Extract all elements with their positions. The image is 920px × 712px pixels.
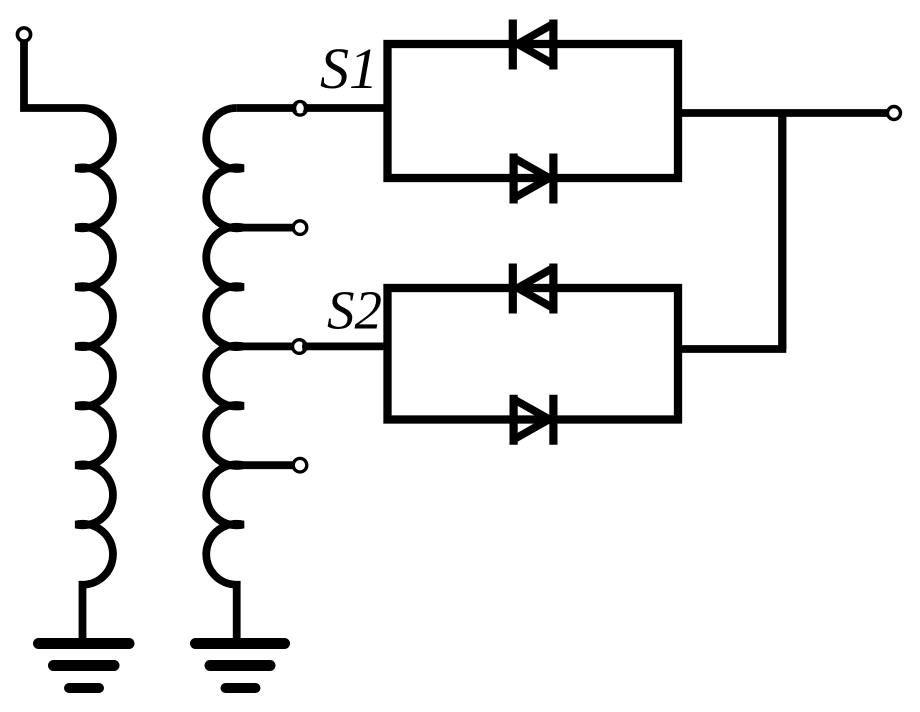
- svg-text:S1: S1: [320, 36, 378, 101]
- diode D2 cathode bar: [549, 154, 557, 204]
- box S2: [388, 288, 679, 420]
- junction white pill tap S1: [296, 103, 304, 113]
- diode D1 triangle: [549, 20, 557, 70]
- diode D3 cathode bar: [509, 264, 517, 314]
- diode D4 cathode bar: [549, 395, 557, 445]
- terminal tap 4: [293, 458, 307, 472]
- terminal ring tap S2: [293, 340, 307, 354]
- junction white crescent tap S2: [293, 341, 303, 351]
- junction bite tap S2: [302, 342, 308, 351]
- terminal ring tap S1: [293, 102, 307, 116]
- diode D3 triangle: [549, 264, 557, 314]
- wire S1 output: [675, 109, 887, 117]
- wire tap 4: [240, 461, 296, 469]
- ground G2: [196, 644, 285, 689]
- wire tap 3 to box S2: [240, 342, 391, 350]
- diode D4 triangle: [509, 395, 517, 445]
- svg-text:S2: S2: [327, 280, 382, 341]
- inductor L1 primary winding: [76, 108, 113, 643]
- box S1: [388, 44, 679, 178]
- wire junction vertical: [778, 113, 786, 349]
- wire primary input: [24, 38, 83, 109]
- terminal tap 2: [293, 221, 307, 235]
- diode D1 cathode bar: [509, 20, 517, 70]
- wire secondary top tap to box S1: [237, 104, 391, 112]
- terminal primary input: [17, 28, 30, 41]
- wire S2 output: [675, 345, 786, 353]
- ground G1: [39, 644, 130, 689]
- terminal output: [888, 107, 901, 120]
- diode D2 triangle: [509, 154, 517, 204]
- inductor L2 secondary winding: [206, 108, 243, 643]
- wire tap 2: [240, 224, 296, 232]
